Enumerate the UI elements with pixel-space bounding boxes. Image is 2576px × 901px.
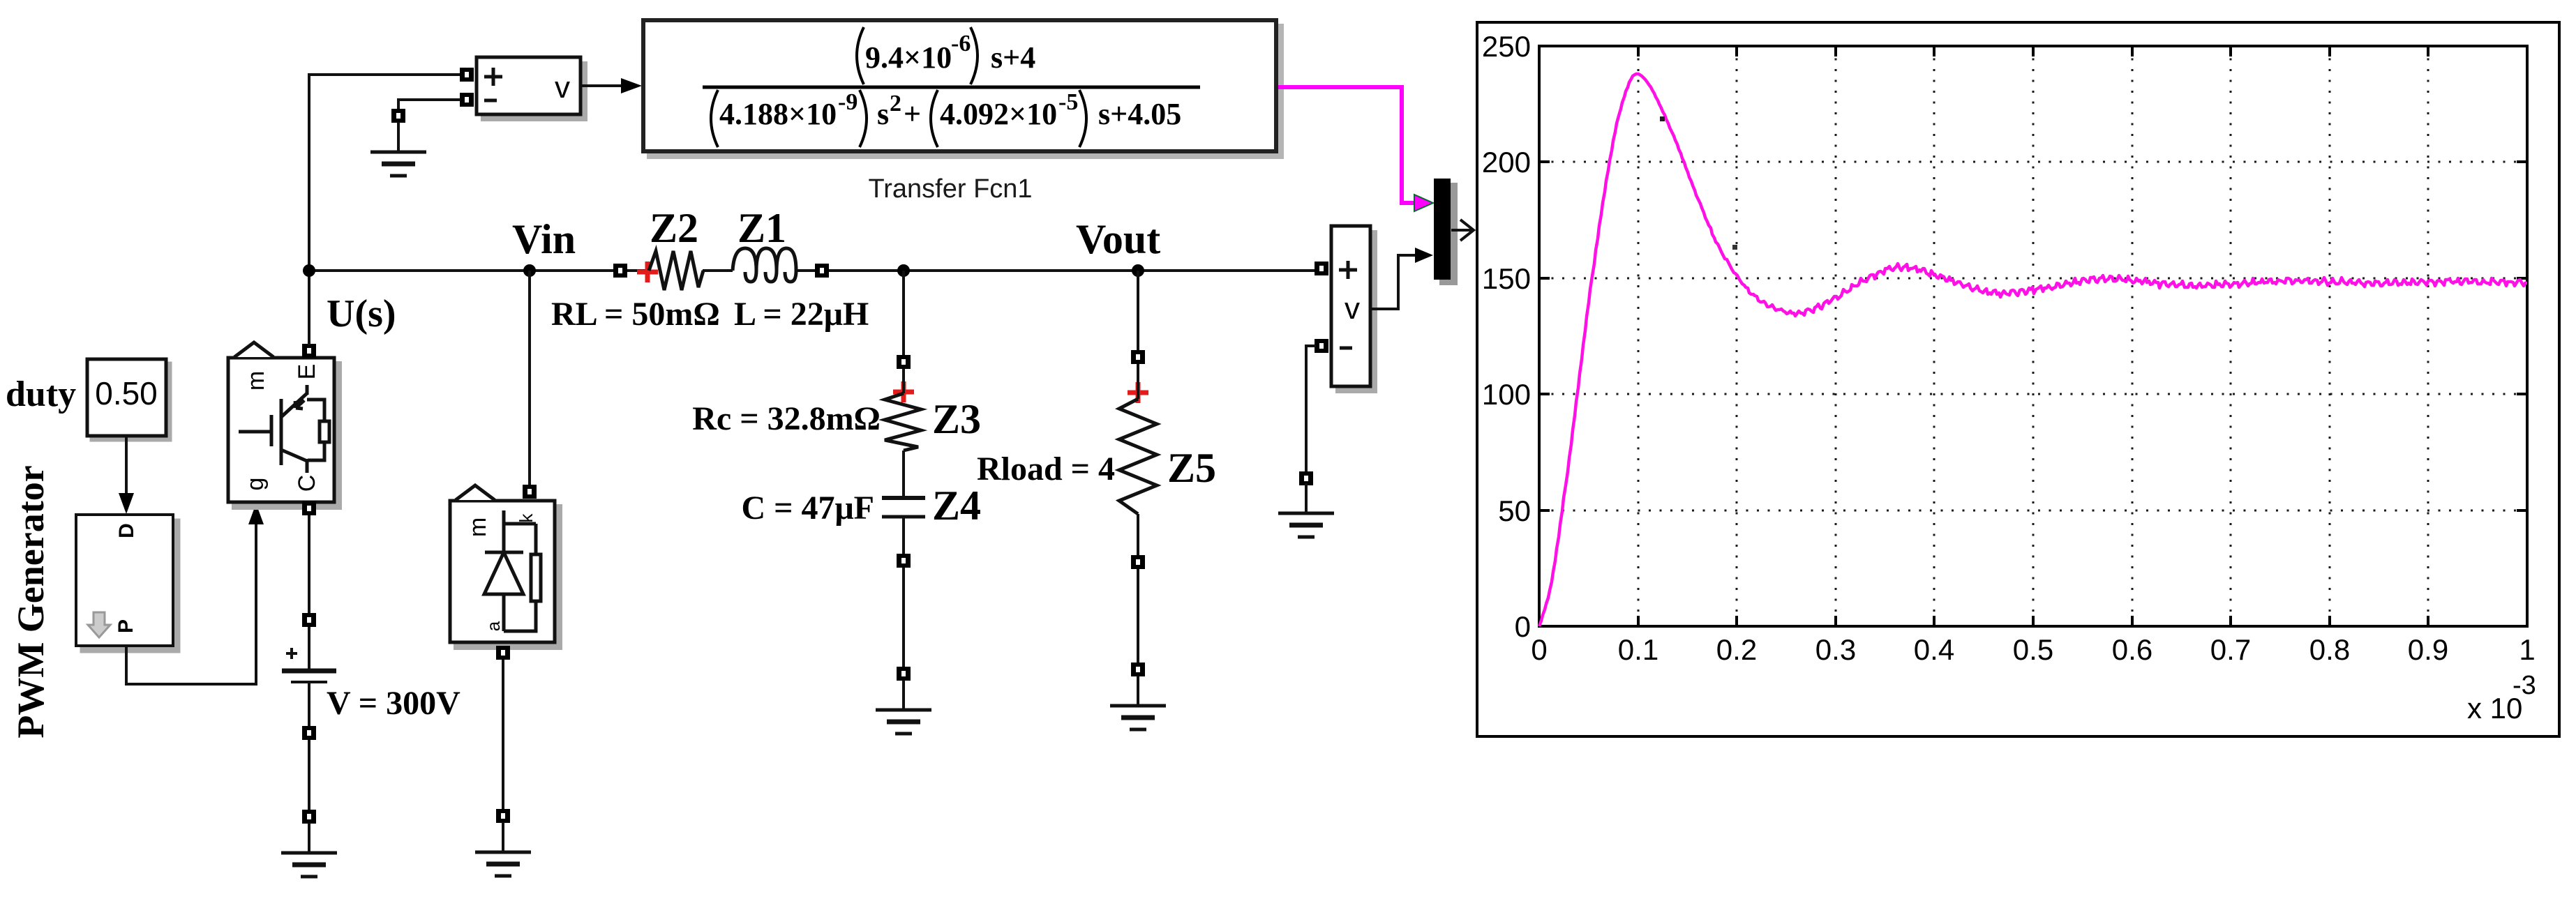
wire: voltmeter2 - to ground [1306,346,1316,471]
annotation: C = 47uF [741,490,874,527]
wire: U(s) node vertical and to voltmeter + [309,75,460,345]
mux: 2-input mux bar [1434,179,1458,285]
wire: PWM P output to IGBT gate [126,503,264,684]
wire: diode to ground [502,660,504,809]
wire: Z5 to ground [1137,569,1139,662]
svg-text:Rc = 32.8mΩ: Rc = 32.8mΩ [692,400,881,437]
svg-text:m: m [243,371,269,391]
inductor Z1 (L) [733,248,796,282]
svg-text:0.3: 0.3 [1815,633,1856,666]
svg-text:k: k [516,513,537,523]
ground: Z5 [1110,676,1166,729]
node: Vout [1132,264,1144,277]
svg-text:9.4×10: 9.4×10 [865,40,952,75]
svg-text:0: 0 [1515,610,1531,643]
port: ground block (voltmeter1) [391,109,405,123]
svg-text:C: C [294,475,320,492]
svg-text:U(s): U(s) [327,292,396,335]
annotation: Rload = 4 [977,450,1115,487]
annotation: V = 300V [327,685,460,722]
svg-text:0.50: 0.50 [95,375,158,411]
wire: bus to Z3 [902,271,905,356]
polarity: Z3 + mark [893,381,914,402]
port: voltmeter1 + [460,68,474,82]
node: Vin [523,264,536,277]
svg-text:100: 100 [1482,378,1531,411]
svg-text:Z1: Z1 [737,205,786,251]
block: PWM Generator [76,515,179,651]
port: battery - [302,726,316,740]
svg-text:duty: duty [6,374,76,414]
port: voltmeter2 + [1315,262,1328,275]
svg-text:2: 2 [890,91,901,116]
signal wire: Transfer Fcn1 to mux (magenta) [1278,87,1433,211]
svg-text:4.092×10: 4.092×10 [940,97,1057,131]
svg-text:Z5: Z5 [1167,445,1216,491]
annotation: U(s) [327,292,396,335]
svg-text:RL = 50mΩ: RL = 50mΩ [551,296,720,333]
svg-text:Vout: Vout [1076,216,1160,262]
svg-text:1: 1 [2519,633,2535,666]
annotation: Z2 label [650,205,698,251]
annotation: duty label [6,374,76,414]
svg-text:V = 300V: V = 300V [327,685,460,722]
svg-text:PWM Generator: PWM Generator [10,465,52,738]
svg-text:-3: -3 [2513,671,2536,700]
svg-text:50: 50 [1498,494,1531,527]
annotation: Z5 label [1167,445,1216,491]
block: Transfer Fcn1 [643,20,1282,157]
svg-text:v: v [1345,291,1360,326]
svg-text:v: v [555,70,570,105]
svg-text:Z2: Z2 [650,205,698,251]
svg-text:L = 22μH: L = 22μH [734,296,869,333]
scope: step response curve (magenta) [1539,74,2527,626]
ground: voltmeter2 [1278,483,1334,537]
svg-text:s+4.05: s+4.05 [1098,97,1181,131]
annotation: Z1 label [737,205,786,251]
port: voltmeter1 - [460,93,474,107]
port: IGBT C (bottom) [302,501,316,515]
scope: y axis labels [1482,30,1531,643]
battery: DC source V=300V [282,627,336,726]
port: Z2 input [613,264,627,278]
annotation: Vout [1076,216,1160,262]
polarity: Z5 + mark [1128,382,1148,403]
port: Z4 bottom [897,554,911,568]
svg-text:0.4: 0.4 [1914,633,1954,666]
svg-text:0.8: 0.8 [2309,633,2350,666]
wire: voltmeter2 output to mux [1370,248,1433,309]
ground: diode [475,822,531,876]
annotation: RL = 50mOhm [551,296,720,333]
svg-text:Vin: Vin [512,216,576,262]
svg-text:-5: -5 [1058,89,1078,115]
node: Z3 branch junction [897,264,910,277]
scope: outer frame [1477,22,2559,736]
svg-text:0.5: 0.5 [2013,633,2053,666]
wire: duty to PWM generator [119,436,134,514]
svg-text:E: E [294,364,320,380]
port: ground block (Z5) [1131,662,1145,676]
svg-text:Transfer Fcn1: Transfer Fcn1 [868,174,1032,204]
svg-text:Z4: Z4 [932,483,981,529]
ground: voltmeter1 [370,122,426,176]
svg-text:C = 47μF: C = 47μF [741,490,874,527]
port: battery + [302,613,316,627]
block: voltmeter U(s) [477,57,586,120]
wire: Vin to diode block [528,271,531,485]
wire: voltmeter1 output to Transfer Fcn1 [581,78,642,93]
svg-text:0.1: 0.1 [1618,633,1658,666]
ground: battery [281,823,337,877]
port: ground block (voltmeter2) [1299,471,1313,485]
svg-text:250: 250 [1482,30,1531,63]
annotation: Vin [512,216,576,262]
wire: Vout to Z5 [1137,271,1139,351]
port: ground block (battery) [302,810,316,824]
wire: Z4 to ground [902,568,905,667]
port: Z3 top [897,355,911,369]
block: diode with snubber [450,485,560,648]
annotation: Rc = 32.8mOhm [692,400,881,437]
wire: IGBT C to battery [308,515,310,613]
wire: battery to ground [308,740,310,810]
polarity: Z2 + mark [637,262,658,282]
svg-text:Z3: Z3 [932,396,981,442]
port: ground block (diode) [496,809,510,823]
svg-text:a: a [483,621,504,631]
svg-text:0.7: 0.7 [2210,633,2251,666]
annotation: Transfer Fcn1 block name [868,174,1032,204]
scope: x axis labels [1531,633,2535,666]
svg-text:m: m [465,517,491,537]
svg-text:0.9: 0.9 [2408,633,2448,666]
annotation: L = 22uH [734,296,869,333]
annotation: Z4 label [932,483,981,529]
port: diode a (bottom) [496,646,510,660]
port: Z5 bottom [1131,555,1145,569]
scope: grid [1541,47,2526,625]
resistor Z2 (RL) [649,251,703,290]
port: voltmeter2 - [1315,339,1328,353]
wire: voltmeter1 - to ground [398,100,460,109]
block: constant 0.50 [87,359,170,440]
block: IGBT [228,342,340,508]
port: diode m (top) [523,485,537,499]
svg-text:s: s [877,97,889,131]
svg-text:-9: -9 [838,89,858,115]
svg-text:g: g [242,478,269,491]
scope: axes box and ticks [1539,46,2527,626]
svg-text:0.2: 0.2 [1716,633,1757,666]
annotation: Z3 label [932,396,981,442]
wire: main bus Vin to Vout [309,269,1315,272]
ground: Z4 [876,680,931,734]
annotation: PWM Generator rotated label [10,465,52,738]
svg-text:4.188×10: 4.188×10 [719,97,837,131]
svg-text:Rload = 4: Rload = 4 [977,450,1115,487]
svg-text:-6: -6 [951,31,971,56]
svg-text:+: + [904,97,921,131]
port: ground block (Z4) [897,667,911,681]
scope: x axis multiplier x10^-3 [2467,671,2536,725]
node: U(s) junction [303,264,315,277]
svg-text:0.6: 0.6 [2112,633,2152,666]
capacitor Z4 (C) [882,450,925,554]
svg-text:P: P [114,619,137,633]
port: Z5 top [1131,350,1145,364]
svg-text:0: 0 [1531,633,1547,666]
block: voltmeter2 (Vout) [1331,226,1376,392]
resistor Z5 (Rload) [1119,364,1157,556]
resistor Z3 (Rc) [885,369,921,450]
wire: mux output arrow to scope [1451,220,1474,241]
port: IGBT E (top) [302,344,316,358]
svg-text:s+4: s+4 [991,40,1035,75]
svg-text:200: 200 [1482,146,1531,179]
port: Z1 output [815,264,829,278]
svg-text:150: 150 [1482,262,1531,295]
svg-text:D: D [115,523,138,538]
